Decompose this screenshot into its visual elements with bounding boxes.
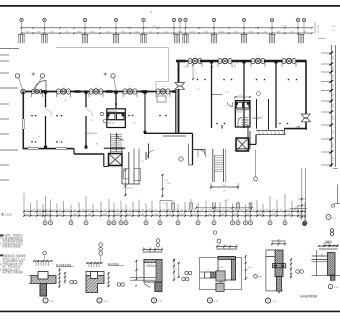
detail 1 body: [31, 276, 56, 297]
expansion joint at block junction: [175, 83, 185, 87]
detail 4 top bar: [218, 257, 235, 260]
detail 4 number label: [207, 298, 212, 303]
svg-text:2.7: 2.7: [62, 138, 65, 140]
left block partition x145: [144, 93, 146, 134]
right block room tag circle: [257, 92, 261, 96]
svg-text:泳水板详图详细: 泳水板详图详细: [300, 294, 317, 298]
detail 4 right bar: [231, 260, 235, 281]
svg-text:240: 240: [28, 146, 31, 148]
right block stairs: [242, 117, 249, 119]
left wall window break: [22, 119, 25, 129]
detail 4 left foot: [211, 272, 218, 278]
right protrusion stairs down: [212, 149, 214, 182]
circled 7 detail ref: [326, 215, 331, 220]
svg-text:1.48: 1.48: [164, 180, 168, 182]
detail 2 body: [86, 276, 104, 293]
svg-text:1.480(98.05): 1.480(98.05): [123, 188, 134, 190]
left block stairs: [111, 134, 123, 136]
left block top wall: [24, 91, 176, 93]
right core door arc: [227, 102, 233, 106]
detail 6 lower lines: [312, 275, 340, 277]
right block top windows: [188, 58, 192, 63]
detail 1 top circle: [43, 251, 47, 255]
svg-text:240: 240: [277, 239, 280, 241]
left block bottom wall: [23, 148, 74, 150]
sheet bottom border: [0, 310, 340, 312]
detail 4 outer box: [199, 258, 241, 290]
left margin lines: [0, 48, 19, 50]
left block room dots: [31, 141, 32, 142]
detail 5 right dim: [290, 258, 292, 278]
detail 3 right dims: [173, 260, 175, 282]
detail 2 top circles: [99, 243, 103, 247]
right stair protrusion outline: [192, 133, 194, 165]
circled node 1: [179, 157, 183, 161]
svg-text:248 140: 248 140: [236, 111, 242, 113]
top dimension line 1: [21, 27, 313, 29]
right elevator shaft: [236, 138, 249, 151]
svg-text:L-25: L-25: [196, 89, 200, 91]
svg-text:1408 98.05: 1408 98.05: [87, 133, 98, 135]
svg-text:248 140: 248 140: [108, 123, 115, 125]
svg-text:240: 240: [294, 207, 297, 209]
detail 2 top dim: [87, 262, 102, 264]
detail 5 ledge: [266, 249, 275, 251]
left block bottom windows: [28, 148, 39, 150]
svg-text:900×2: 900×2: [219, 266, 224, 269]
svg-text:90: 90: [195, 72, 197, 74]
middle band right bits: [301, 168, 303, 221]
svg-text:未尽事宜详观国家: 未尽事宜详观国家: [0, 270, 23, 274]
left core tags: [103, 119, 107, 123]
right block left wall: [178, 61, 180, 133]
svg-text:C7: C7: [207, 270, 209, 272]
left core stair arc: [117, 133, 124, 140]
detail 3 body: [144, 260, 162, 283]
expansion joint symbol on right wall: [301, 114, 310, 118]
svg-text:40 40: 40 40: [238, 95, 242, 97]
right block wall stubs: [176, 60, 186, 63]
svg-text:b4: b4: [38, 136, 40, 138]
left stair protrusion: [103, 154, 105, 167]
detail 3 left dim: [136, 260, 138, 280]
upper floor outline thin: [56, 47, 169, 49]
svg-text:1.48: 1.48: [132, 123, 136, 125]
detail 3 ref circles: [182, 277, 185, 280]
left block left wall: [22, 92, 24, 150]
detail 6 ledge: [312, 255, 328, 257]
svg-text:2.7: 2.7: [33, 138, 36, 140]
right dim strip lines: [330, 45, 332, 167]
svg-text:入口: 入口: [183, 65, 187, 68]
middle band callouts: [160, 200, 172, 202]
detail 1 top dim: [34, 260, 52, 262]
detail 5 wall bar: [275, 250, 283, 277]
top column marks: [18, 33, 25, 35]
middle dimension ticks: [23, 210, 25, 212]
right protrusion door arc: [198, 149, 206, 157]
detail 4 top dim: [217, 246, 237, 248]
right dim strip ticks: [321, 52, 331, 54]
joint wall between blocks: [144, 132, 193, 134]
left core kitchen-bath cluster: [107, 109, 126, 128]
detail 5 left tag circle: [254, 275, 258, 279]
detail 4 top circle: [217, 239, 221, 243]
right block kitchen-bath core: [235, 101, 250, 127]
left protrusion door arc: [148, 151, 155, 158]
detail 5 bottom stem: [278, 291, 280, 294]
svg-text:1408 98.05: 1408 98.05: [108, 111, 117, 113]
top band right end marks: [314, 22, 316, 34]
svg-text:900: 900: [224, 245, 227, 247]
right block room dots: [197, 79, 198, 80]
detail 6 wall bar: [328, 253, 336, 276]
detail 6 top dim: [319, 245, 338, 247]
right block interior door arcs: [207, 62, 213, 68]
detail 1 right dims: [59, 268, 61, 288]
detail 5 top dim: [272, 240, 285, 242]
detail 4 right dim: [245, 255, 247, 280]
detail 4 left ref circles: [185, 271, 188, 274]
svg-text:150: 150: [175, 269, 178, 271]
svg-text:厚度见标准图集: 厚度见标准图集: [0, 244, 21, 248]
right block top wall: [176, 60, 307, 62]
svg-text:xx: xx: [332, 30, 334, 32]
detail 6 ref label: [328, 284, 332, 288]
svg-text:1408 98.05: 1408 98.05: [252, 118, 261, 120]
detail 3 top dim: [144, 249, 163, 251]
small fixture rect near joint: [157, 96, 166, 102]
svg-text:1.34: 1.34: [225, 92, 229, 94]
svg-text:240: 240: [222, 191, 225, 193]
detail 2 number label: [97, 298, 102, 303]
detail 5 joint band: [273, 264, 286, 268]
right strip lower vertical: [337, 185, 339, 205]
top dimension line 2: [21, 32, 313, 34]
left block wall stubs: [41, 90, 47, 93]
svg-text:1500: 1500: [248, 267, 252, 269]
right block window sill ticks: [187, 63, 189, 68]
detail 2 ref circles: [117, 283, 120, 286]
svg-text:240: 240: [220, 282, 223, 284]
middle band grid bubbles: [44, 216, 46, 221]
middle dimension line 2: [24, 215, 305, 217]
left block right wall: [175, 92, 177, 134]
sheet top border: [0, 5, 340, 7]
right core lower walls: [221, 125, 223, 129]
svg-text:图 1:100: 图 1:100: [1, 213, 12, 217]
right block room1 dim: [192, 64, 194, 80]
detail 1 number label: [43, 298, 48, 303]
detail 5 ref circles: [296, 270, 300, 274]
right block partitions: [211, 62, 213, 128]
top grid bubbles row: [20, 18, 23, 21]
detail 3 number label: [151, 298, 156, 303]
svg-text:⍝: ⍝: [150, 10, 152, 14]
right block balcony ledge: [256, 129, 285, 131]
left block partition with door arrow: [115, 93, 117, 109]
middle dimension line 1: [24, 210, 305, 212]
svg-text:M1: M1: [64, 100, 66, 102]
svg-text:1.34(1.35): 1.34(1.35): [254, 117, 263, 119]
svg-text:(+0.05): (+0.05): [147, 264, 153, 266]
left block top windows: [21, 89, 26, 94]
detail 3 top circles: [156, 239, 160, 243]
right block step wall: [255, 135, 257, 145]
middle band extension lines: [23, 193, 25, 216]
top dimension ticks: [21, 27, 23, 29]
right protrusion dim: [211, 186, 238, 188]
detail 5 number label: [265, 298, 270, 303]
middle band double tick caps: [171, 203, 173, 210]
left block partitions: [45, 93, 47, 108]
right protrusion side dim bubble: [255, 150, 257, 177]
right core dim above: [235, 96, 250, 98]
left protrusion walls: [121, 147, 123, 184]
detail 1 ref circles: [70, 280, 73, 283]
detail 4 center stipple: [216, 271, 225, 281]
middle band partial dim row: [196, 207, 252, 209]
detail 3 inner line: [147, 265, 157, 267]
right block bottom wall east: [284, 128, 307, 130]
left elevator shaft: [109, 154, 123, 166]
detail 4 lower column: [216, 283, 224, 291]
svg-text:L-08: L-08: [162, 203, 166, 205]
svg-text:1.75: 1.75: [90, 120, 94, 122]
left core landing wall: [104, 147, 126, 149]
left block window sill ticks: [31, 93, 33, 97]
right block right wall: [305, 61, 307, 130]
left entrance door arc: [34, 81, 46, 92]
svg-text:(1.48): (1.48): [166, 183, 171, 185]
upper grid bubbles above left wall: [15, 74, 19, 78]
detail 2 right dims: [108, 272, 110, 287]
svg-text:M-1: M-1: [141, 161, 144, 163]
left protrusion dims: [124, 169, 126, 196]
